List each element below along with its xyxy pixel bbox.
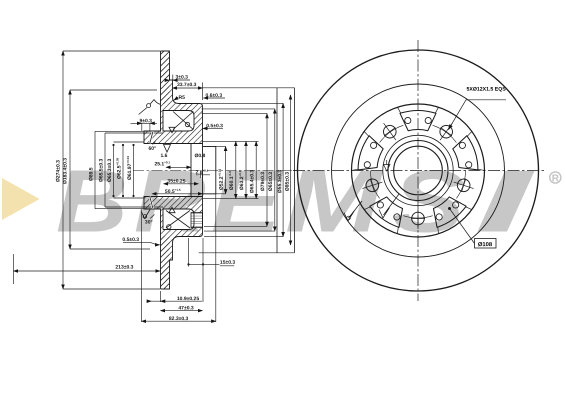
vertical centerline right view xyxy=(417,40,419,301)
svg-text:Ø0.8: Ø0.8 xyxy=(194,153,205,159)
svg-text:30°: 30° xyxy=(145,220,153,226)
svg-text:0.5±0.3: 0.5±0.3 xyxy=(122,237,139,243)
right cluster dim line 2 (60.1) xyxy=(235,141,237,198)
bearing cavity top (white) xyxy=(163,111,194,132)
roughness symbol B xyxy=(379,194,399,218)
svg-text:R: R xyxy=(552,173,560,184)
wheel bolt hole 1 xyxy=(411,208,425,229)
dim 25.1 xyxy=(166,166,191,168)
hub window 3 xyxy=(425,191,472,234)
bearing retainer block bottom (horizontal stripes) xyxy=(191,213,202,228)
hub flange circle xyxy=(352,104,485,237)
roughness triangle 1.6 xyxy=(164,145,171,153)
svg-text:Ø183.4±0.3: Ø183.4±0.3 xyxy=(62,158,68,184)
bearing cavity outline top xyxy=(163,111,194,132)
dim 2.1 xyxy=(196,171,210,178)
hub window 1 xyxy=(398,107,439,130)
flange chamfer line top xyxy=(150,131,153,143)
label box Ø108 xyxy=(475,239,497,249)
leader 0.6 xyxy=(206,97,225,99)
dim 33.7 xyxy=(202,83,204,101)
frame verticals xyxy=(277,88,295,253)
dim 47 xyxy=(161,310,203,312)
leader 0.5 bottom xyxy=(123,242,159,245)
stacked extension horizontals bottom xyxy=(199,194,295,253)
svg-text:Ø65.3±0.3: Ø65.3±0.3 xyxy=(107,159,113,183)
svg-text:9±0.3: 9±0.3 xyxy=(139,118,152,124)
svg-text:60°: 60° xyxy=(148,146,156,152)
svg-text:Ø108: Ø108 xyxy=(478,242,493,248)
surface finish symbol top-left (circle-check) xyxy=(139,100,175,219)
wheel bolt hole 3 xyxy=(378,119,402,144)
left cluster extension y142 xyxy=(114,142,145,198)
dim 35 xyxy=(164,183,199,185)
dim 15 (dot ends) xyxy=(189,264,235,265)
left cluster dim line 3 xyxy=(113,145,115,196)
extension verticals bottom xyxy=(14,193,216,322)
bolt circle arc at 234deg xyxy=(380,125,404,142)
svg-text:M: M xyxy=(285,152,384,251)
disc ring section top (hatched) xyxy=(161,51,180,104)
svg-text:213±0.3: 213±0.3 xyxy=(115,265,133,271)
svg-text:1.6: 1.6 xyxy=(160,153,167,159)
wheel bolt hole 5 xyxy=(452,175,476,195)
bearing cross bottom xyxy=(166,211,190,229)
dim 50.5 xyxy=(152,193,203,195)
watermark BREMSI text xyxy=(56,152,128,250)
leader 0.5 top xyxy=(206,127,223,129)
bearing seat triangle top xyxy=(169,127,175,133)
svg-text:Ø55.3±0.3: Ø55.3±0.3 xyxy=(277,170,283,194)
hub boss bore (center) xyxy=(191,144,216,197)
svg-text:Ø89.5: Ø89.5 xyxy=(88,167,94,181)
horizontal centerline right view xyxy=(293,170,546,172)
svg-text:5XØ12X1.5 EQS: 5XØ12X1.5 EQS xyxy=(466,87,506,93)
friction band inner circle xyxy=(332,84,505,257)
bolt circle arc at 306deg xyxy=(433,125,457,142)
right cluster dim line 8 (85) xyxy=(290,95,292,245)
svg-text:Ø65±0.3: Ø65±0.3 xyxy=(268,172,274,191)
dim 3 ticks xyxy=(170,75,191,81)
bearing seat triangle bottom xyxy=(169,207,175,213)
svg-text:Ø79±0.3: Ø79±0.3 xyxy=(260,172,266,191)
leader R5 xyxy=(174,98,178,101)
right cluster dim line 7 (55.3) xyxy=(282,103,284,236)
roughness symbol A xyxy=(344,201,362,221)
inner step circle xyxy=(383,135,453,205)
svg-text:82.3±0.3: 82.3±0.3 xyxy=(169,316,189,322)
center bore circles xyxy=(388,141,448,201)
dim line dia274 xyxy=(63,51,160,289)
right cluster dim line 6 (65) xyxy=(274,109,276,231)
section outline bottom xyxy=(144,197,203,290)
svg-text:10.9±0.25: 10.9±0.25 xyxy=(177,296,199,302)
right cluster dim line 4 (65.4) xyxy=(255,141,257,198)
hub window 2 xyxy=(450,131,485,177)
bolt circle arc at 90deg xyxy=(403,216,432,218)
svg-text:Ø65.5±0.3: Ø65.5±0.3 xyxy=(98,158,104,182)
flange chamfer line bottom xyxy=(150,197,153,209)
dim 10.9 xyxy=(148,300,203,302)
bearing cross top xyxy=(173,112,193,130)
left cluster dim line 2 xyxy=(105,133,163,207)
section outline top xyxy=(144,51,203,144)
left cluster dim line 1 xyxy=(95,131,161,208)
right cluster dim line 5 (79) xyxy=(266,114,268,227)
outer disc circle xyxy=(298,50,539,291)
dim 213 xyxy=(14,270,161,272)
wheel bolt hole 4 xyxy=(434,119,458,144)
svg-text:E: E xyxy=(211,152,284,250)
dim line dia183.4 xyxy=(70,90,157,249)
svg-text:Ø85±0.3: Ø85±0.3 xyxy=(285,172,291,191)
svg-text:0.5±0.3: 0.5±0.3 xyxy=(206,123,223,129)
left cluster dim line 4 xyxy=(122,145,124,196)
datum triangle on bore xyxy=(384,160,391,171)
dim 82.3 xyxy=(142,320,216,322)
stacked extension horizontals top xyxy=(199,88,295,147)
svg-text:15±0.3: 15±0.3 xyxy=(220,260,235,266)
bolt circle arc at 162deg xyxy=(371,171,380,199)
surface finish symbol bottom-left xyxy=(142,210,151,219)
svg-text:3±0.3: 3±0.3 xyxy=(175,75,188,81)
leader 30deg bottom xyxy=(150,215,155,219)
svg-text:0.6±0.3: 0.6±0.3 xyxy=(205,93,222,99)
bearing cavity outline bottom xyxy=(163,209,194,230)
hat wall top band (hatched) xyxy=(144,104,203,144)
svg-text:Ø65.4±0.3: Ø65.4±0.3 xyxy=(249,170,255,194)
watermark registered mark xyxy=(550,172,561,183)
svg-text:35±0.25: 35±0.25 xyxy=(167,179,185,185)
left cluster dim line 5 xyxy=(133,145,135,196)
right cluster dim line 1 (52.2) xyxy=(225,146,227,193)
bearing cavity bottom (white) xyxy=(163,209,194,230)
svg-text:Ø274±0.3: Ø274±0.3 xyxy=(55,160,61,182)
watermark logo chevron xyxy=(2,178,40,220)
svg-text:47±0.3: 47±0.3 xyxy=(178,305,193,311)
hat wall bottom band (hatched) xyxy=(144,197,203,237)
dim 9 arrows xyxy=(131,123,158,131)
centerline left view xyxy=(133,170,298,172)
hub window 5 xyxy=(352,131,387,177)
hub window 4 xyxy=(364,191,411,234)
leader 60deg xyxy=(153,142,156,145)
wheel bolt hole 2 xyxy=(360,175,384,195)
right cluster dim line 3 (63.2) xyxy=(245,141,247,198)
disc ring section bottom (hatched) xyxy=(161,237,180,290)
svg-text:33.7±0.3: 33.7±0.3 xyxy=(177,82,197,88)
bolt circle arc at 18deg xyxy=(456,171,465,199)
svg-text:R5: R5 xyxy=(178,95,185,101)
